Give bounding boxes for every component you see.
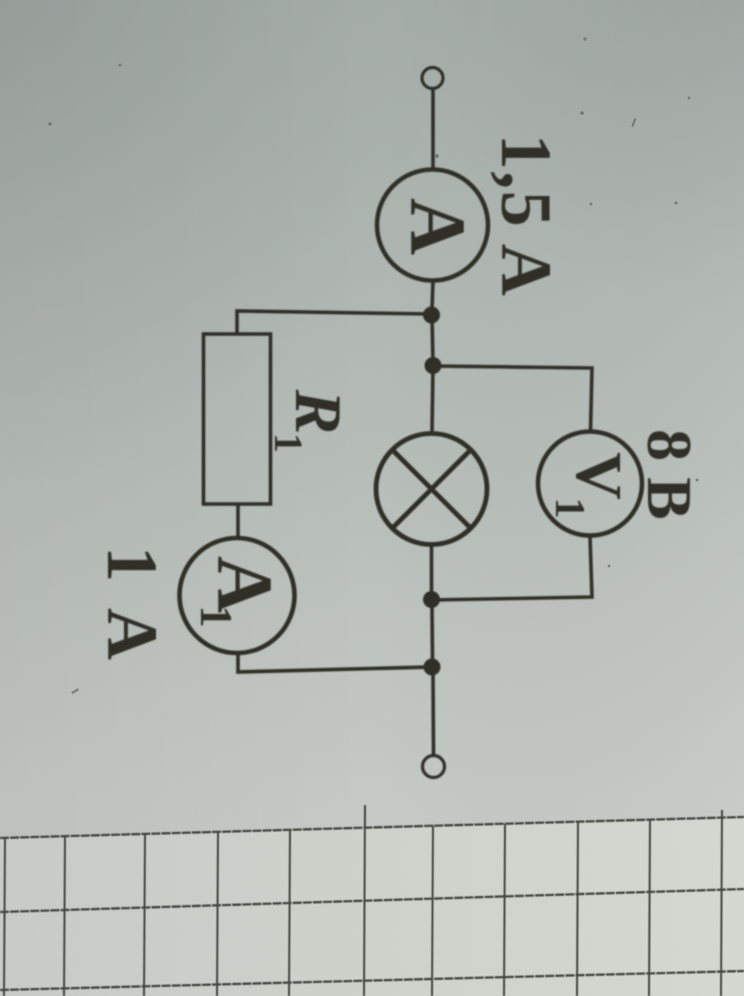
lamp cross stroke 1 [393, 451, 470, 528]
lamp EL1 [376, 434, 487, 545]
label A1 inside ammeter A1 [200, 556, 287, 613]
node D junction dot [424, 659, 441, 676]
wire ammeter A1 to node D [238, 654, 431, 673]
wire node C to node D [430, 607, 434, 659]
grid horizontal line 2 [0, 889, 744, 912]
value label 8 V [634, 429, 705, 520]
wire node D to bottom terminal [431, 675, 435, 755]
grid vertical lines [4, 838, 5, 996]
wire node B to voltmeter V1 [433, 366, 592, 431]
wire top terminal to ammeter [431, 89, 435, 170]
terminal top [422, 68, 443, 89]
grid horizontal line 3 [0, 971, 744, 990]
ammeter A1 [180, 538, 295, 653]
circuit drawing [180, 68, 643, 778]
lamp cross stroke 2 [393, 451, 470, 528]
value label 1,5 A [486, 134, 566, 298]
label R1 [281, 389, 355, 435]
resistor R1 [204, 334, 271, 504]
node C junction dot [423, 591, 440, 608]
label A1 subscript 1 [191, 605, 241, 628]
node B junction dot [425, 357, 442, 374]
label R1 subscript 1 [266, 433, 311, 453]
voltmeter V1 [538, 432, 642, 536]
ammeter A [377, 170, 488, 281]
label V1 inside voltmeter [562, 452, 635, 500]
wire voltmeter V1 to node C [432, 536, 592, 600]
labels (rotated 90deg, photo is sideways) [92, 134, 705, 666]
paper specks [48, 37, 698, 694]
wire resistor to ammeter A1 [236, 504, 240, 538]
label A inside ammeter [393, 198, 480, 255]
wire lamp to node C [430, 545, 434, 592]
label V1 subscript 1 [546, 498, 592, 519]
wire node B to lamp [432, 366, 433, 433]
grid horizontal line 1 (sheet top edge) [0, 817, 744, 838]
value label 1 A [92, 546, 172, 666]
squared notebook sheet at bottom [0, 817, 744, 996]
wire node A to resistor R1 [237, 311, 431, 335]
grid lines [0, 805, 744, 996]
terminal bottom [423, 756, 445, 778]
wire ammeter to node A [432, 281, 433, 309]
wire node A to node B [432, 315, 433, 365]
node A junction dot [423, 307, 440, 324]
